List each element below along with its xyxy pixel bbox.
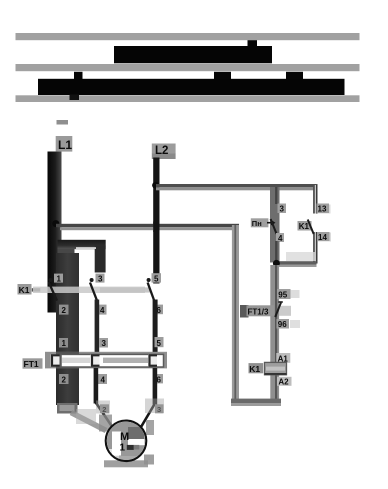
light smudge right of 13 <box>318 205 331 214</box>
thermal relay FT1 body <box>45 352 167 369</box>
wire: control return horizontal from L1 node <box>56 224 239 230</box>
label FT1 <box>23 358 43 369</box>
contactor K1 label <box>18 284 41 295</box>
label L2 <box>152 144 176 160</box>
label 2 (FT1 out) <box>59 374 69 384</box>
svg-text:K1: K1 <box>299 222 310 231</box>
svg-text:13: 13 <box>318 205 327 214</box>
start button SB (Пн) actuator <box>251 218 276 228</box>
label 3 (FT1 in) <box>100 338 109 348</box>
subtitle descender mark <box>70 95 80 101</box>
wire: junction down through 95-96 and coil to return corner <box>270 265 279 402</box>
motor terminal label (pole 3) <box>155 404 164 414</box>
wire: pole-3 to FT1 <box>153 300 158 355</box>
label 1 (contact) <box>54 274 63 284</box>
svg-text:L2: L2 <box>155 145 168 157</box>
wire: L2 phase down to contact 5 <box>153 158 159 284</box>
label 14 (seal-in) <box>317 232 330 242</box>
svg-text:2: 2 <box>62 375 67 384</box>
light smudge right of 14 <box>318 233 331 242</box>
svg-text:Пн: Пн <box>252 219 262 228</box>
svg-text:1: 1 <box>62 339 67 348</box>
label A2 <box>277 377 292 387</box>
svg-text:14: 14 <box>318 233 327 242</box>
svg-text:FT1: FT1 <box>24 359 39 369</box>
svg-text:M: M <box>120 431 129 443</box>
label 5 (FT1 in) <box>155 337 164 348</box>
label 4 (FT1 out) <box>98 374 107 384</box>
svg-text:4: 4 <box>101 375 106 384</box>
header rule top <box>16 33 360 40</box>
svg-text:96: 96 <box>278 320 287 329</box>
label 5 (contact) <box>152 273 162 283</box>
contactor K1 seal-in contact label <box>298 221 312 231</box>
svg-text:2: 2 <box>62 306 67 315</box>
contact K1 pole 2 (terminals 3-4) <box>90 278 97 301</box>
wire: feed corner down to seal-in branch <box>313 185 317 264</box>
pole-1 column foot <box>57 403 78 414</box>
motor M1 <box>99 415 154 468</box>
label 3 (contact) <box>96 274 105 284</box>
svg-text:K1: K1 <box>19 285 30 295</box>
svg-text:1: 1 <box>120 443 126 454</box>
label 95 <box>277 289 300 300</box>
light smudge below junction bar <box>286 252 315 261</box>
wire: pole-2 FT1 to motor <box>94 368 112 427</box>
svg-text:3: 3 <box>280 205 285 214</box>
FT1 heater element pole 2 <box>91 354 100 366</box>
label 13 (seal-in) <box>317 204 330 214</box>
wire: pole-3 FT1 to motor <box>141 368 157 427</box>
svg-text:4: 4 <box>100 306 105 315</box>
wire: control feed horizontal from L2 node to right branch <box>156 184 318 190</box>
coil K1 (A1-A2) <box>265 362 287 375</box>
label 1 (FT1 in) <box>59 338 68 348</box>
small gray dash above L1 <box>57 120 69 125</box>
motor terminal label (pole 2) <box>100 404 109 414</box>
svg-text:L1: L1 <box>58 138 72 152</box>
label 6 (contact) <box>155 305 164 315</box>
mechanical link line (blurred) <box>33 287 150 293</box>
title text line (redacted) <box>114 40 272 63</box>
gray smudge at motor wire 2 <box>96 401 110 414</box>
label 4 (button) <box>276 233 284 243</box>
label 6 (FT1 out) <box>155 374 164 384</box>
start button contact 3-4 <box>271 219 277 234</box>
wire: bottom return horizontal <box>231 399 281 406</box>
label 3 (button) <box>270 204 286 242</box>
wire: L1 phase bus (thick dark bar) <box>48 152 62 313</box>
label 96 <box>277 319 301 329</box>
FT1 heater element pole 1 <box>51 354 60 366</box>
svg-text:5: 5 <box>154 274 159 283</box>
svg-text:1: 1 <box>57 274 62 283</box>
svg-text:5: 5 <box>157 339 162 348</box>
wire: pole-2 to FT1 <box>95 300 100 355</box>
node on L1 bus (tap for control return) <box>52 220 59 227</box>
wire: pole-2 feed band from L1 bus <box>58 240 106 273</box>
svg-text:FT1/3: FT1/3 <box>248 308 269 317</box>
wire: start-button branch from feed line <box>270 187 280 204</box>
contact K1 pole 3 (terminals 5-6) <box>147 278 155 301</box>
svg-text:3: 3 <box>102 339 107 348</box>
wire: pole-1 lower column <box>56 253 79 405</box>
K1 seal-in contact 13-14 <box>308 220 314 235</box>
wire: control return vertical down right of poles <box>232 225 239 405</box>
svg-text:3: 3 <box>98 274 103 283</box>
label A1 <box>276 353 290 363</box>
subtitle text line (redacted) <box>38 72 345 95</box>
wire: junction bar joining branches <box>276 261 317 267</box>
label 4 (contact) <box>98 305 107 315</box>
label 2 (contact) <box>59 305 69 315</box>
svg-text:K1: K1 <box>249 364 260 374</box>
wire: pole-1 column to motor (blurred) <box>71 409 106 431</box>
label FT1/3 (thermal NC contact) <box>240 305 291 318</box>
FT1 heater element pole 3 <box>148 354 157 366</box>
gray smudge at motor wire 3 <box>145 399 164 414</box>
svg-text:6: 6 <box>157 375 162 384</box>
FT1 NC contact 95-96 <box>275 302 283 317</box>
svg-text:95: 95 <box>278 291 287 300</box>
wire: button branch down to junction <box>270 241 280 263</box>
node on L2 (tap for control feed) <box>152 182 159 189</box>
header rule middle <box>16 64 360 71</box>
coil K1 label <box>249 363 264 374</box>
contact K1 pole 1 (terminals 1-2) <box>49 278 57 301</box>
svg-text:A2: A2 <box>278 378 289 387</box>
node: branch junction <box>273 260 280 267</box>
wire: L2 phase over crossing <box>153 222 159 233</box>
label L1 <box>56 136 73 152</box>
header rule bottom <box>16 95 360 102</box>
